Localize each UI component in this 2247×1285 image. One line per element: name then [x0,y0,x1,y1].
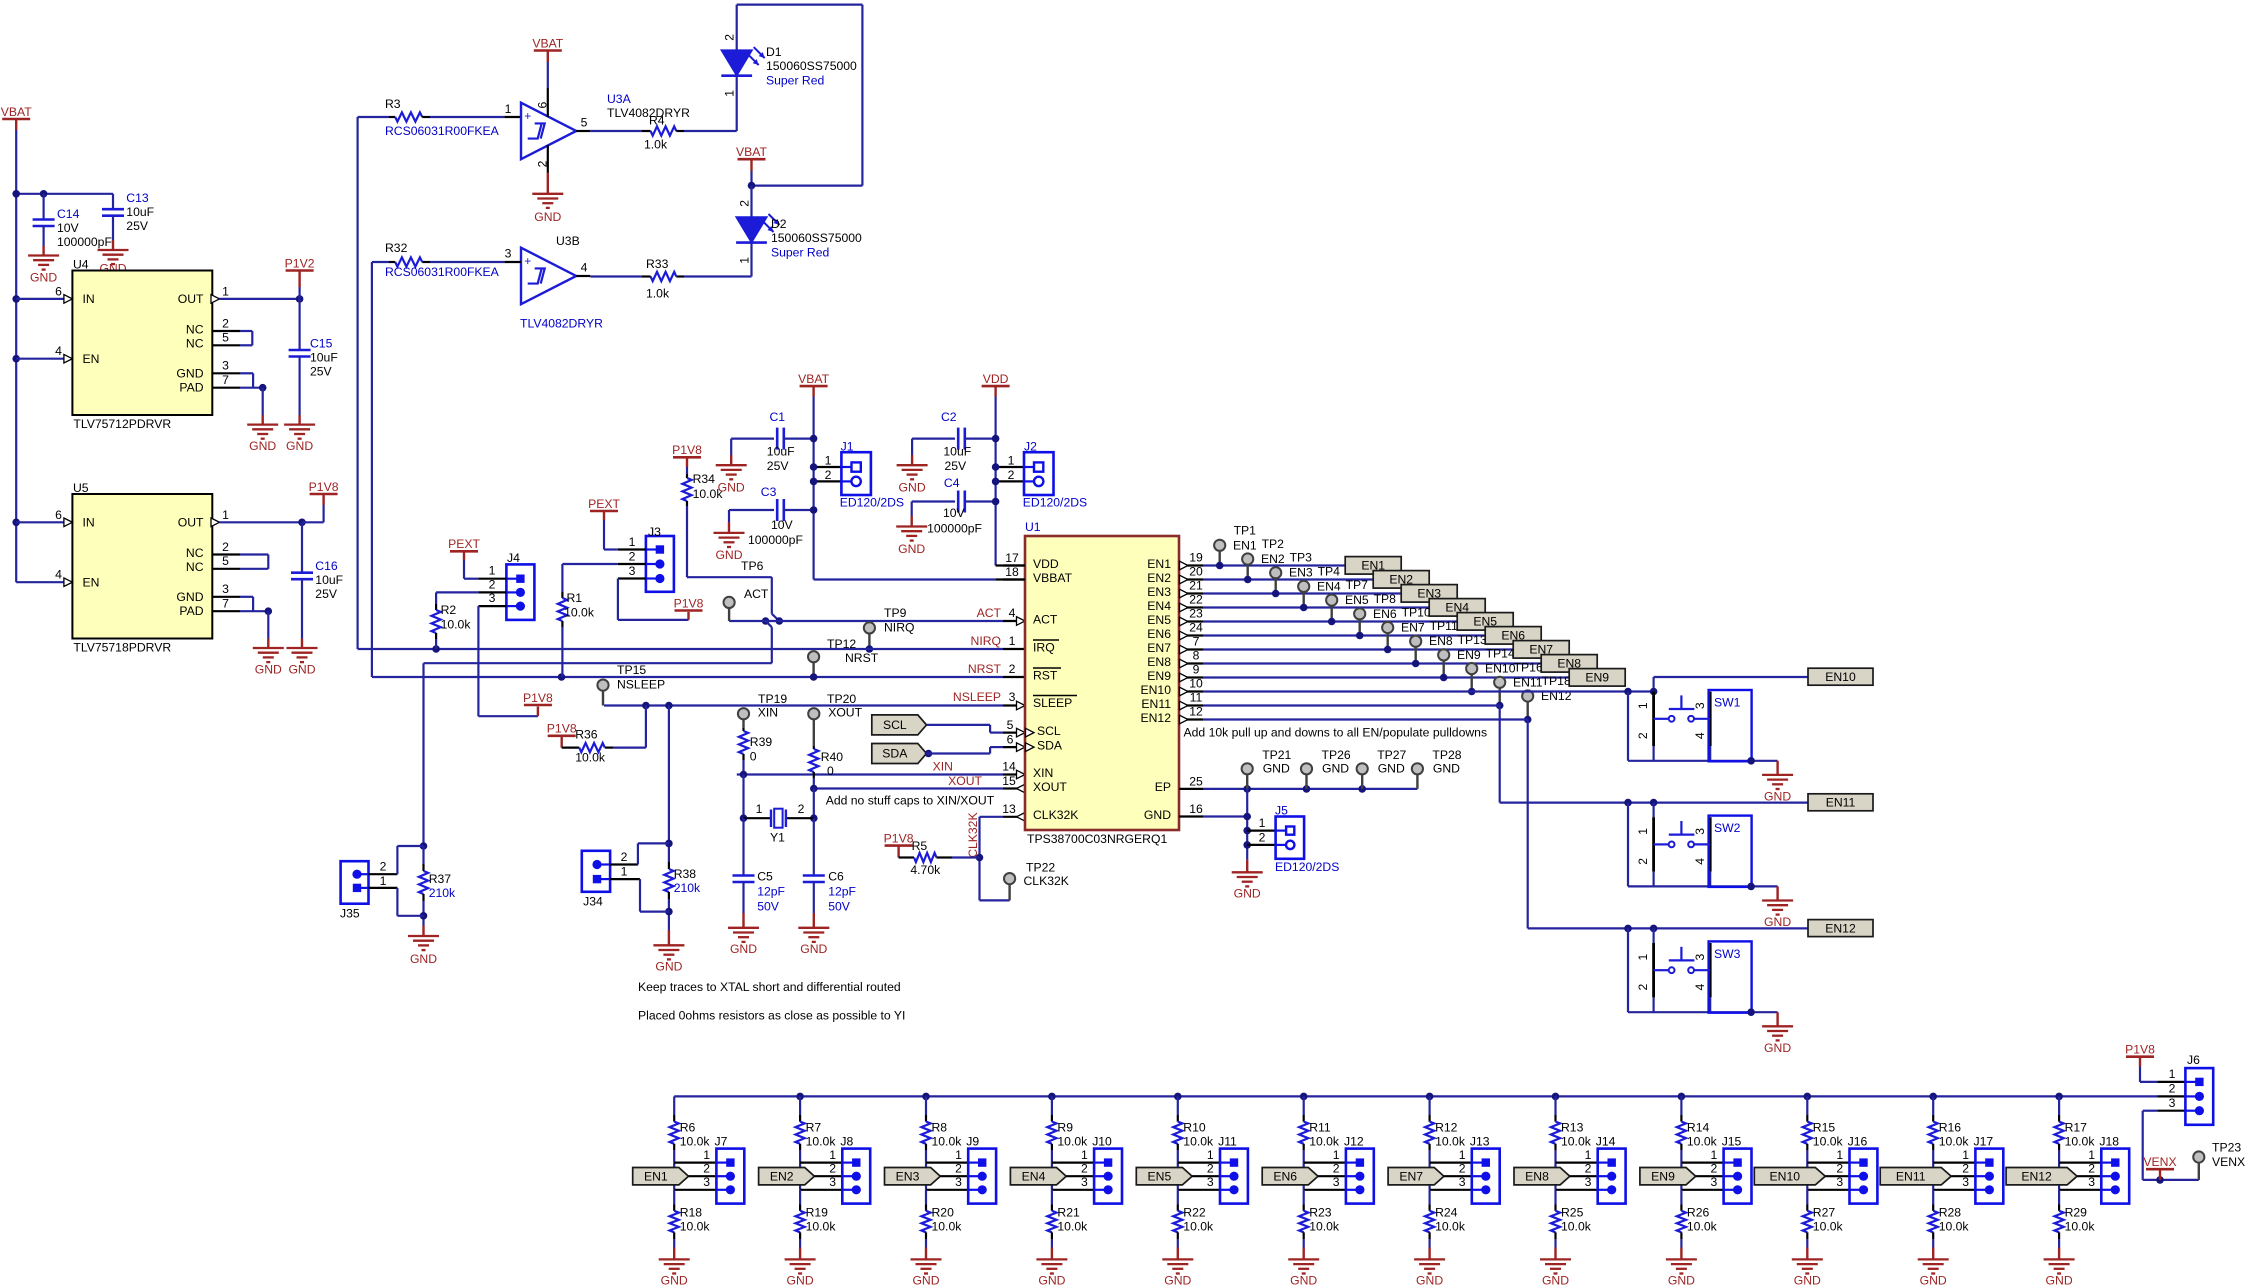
svg-text:1: 1 [222,508,229,522]
svg-text:GND: GND [1038,1273,1065,1285]
svg-text:XOUT: XOUT [1033,780,1067,794]
svg-text:TP23: TP23 [2212,1141,2241,1155]
svg-text:18: 18 [1005,565,1019,579]
svg-text:J11: J11 [1218,1134,1237,1148]
svg-text:TP4: TP4 [1318,564,1341,578]
svg-text:3: 3 [1693,828,1707,835]
svg-text:100000pF: 100000pF [927,521,982,535]
svg-text:XIN: XIN [1033,766,1053,780]
svg-text:R11: R11 [1309,1120,1331,1134]
svg-text:10.0k: 10.0k [1057,1219,1088,1233]
svg-text:12pF: 12pF [828,884,856,898]
svg-text:5: 5 [222,331,229,345]
svg-text:R20: R20 [932,1205,955,1219]
svg-text:GND: GND [249,439,276,453]
svg-text:3: 3 [1333,1175,1340,1189]
svg-text:EN1: EN1 [1233,538,1257,552]
svg-text:J2: J2 [1024,440,1037,454]
svg-text:TP15: TP15 [617,663,646,677]
svg-text:R27: R27 [1813,1205,1836,1219]
svg-text:EN12: EN12 [1141,711,1172,725]
svg-text:3: 3 [829,1175,836,1189]
svg-text:R6: R6 [680,1120,696,1134]
svg-text:R34: R34 [693,472,716,486]
svg-text:TP28: TP28 [1432,748,1461,762]
svg-text:C13: C13 [126,191,149,205]
svg-text:3: 3 [1962,1175,1969,1189]
svg-text:1: 1 [756,802,763,816]
svg-text:EN11: EN11 [1826,796,1856,810]
svg-text:IN: IN [83,292,95,306]
svg-text:150060SS75000: 150060SS75000 [766,59,857,73]
svg-text:GND: GND [912,1273,939,1285]
svg-text:6: 6 [55,508,62,522]
svg-text:8: 8 [1193,648,1200,662]
svg-text:ED120/2DS: ED120/2DS [1275,860,1339,874]
svg-text:R17: R17 [2065,1120,2088,1134]
svg-text:EN9: EN9 [1585,671,1609,685]
svg-text:1.0k: 1.0k [644,137,668,151]
svg-text:TP18: TP18 [1542,674,1571,688]
svg-text:U4: U4 [73,257,89,271]
svg-text:R14: R14 [1687,1120,1710,1134]
svg-text:10.0k: 10.0k [1939,1134,1970,1148]
svg-text:EN: EN [83,575,100,589]
svg-text:R15: R15 [1813,1120,1836,1134]
svg-text:6: 6 [55,284,62,298]
svg-text:J1: J1 [841,440,854,454]
svg-text:TP8: TP8 [1374,592,1397,606]
svg-text:RST: RST [1033,668,1058,682]
svg-text:PEXT: PEXT [588,497,620,511]
svg-text:RCS06031R00FKEA: RCS06031R00FKEA [385,265,500,279]
svg-text:7: 7 [222,597,229,611]
svg-text:ED120/2DS: ED120/2DS [1023,496,1087,510]
svg-text:10.0k: 10.0k [564,605,595,619]
svg-text:10: 10 [1189,676,1203,690]
svg-text:1: 1 [380,874,387,888]
svg-text:R36: R36 [575,727,598,741]
svg-text:U3A: U3A [607,92,632,106]
svg-text:NIRQ: NIRQ [971,634,1001,648]
svg-text:10.0k: 10.0k [1183,1219,1214,1233]
svg-text:IN: IN [83,515,95,529]
svg-text:EN2: EN2 [1261,552,1285,566]
svg-text:10.0k: 10.0k [806,1219,837,1233]
svg-text:J3: J3 [648,525,661,539]
svg-text:4: 4 [1009,606,1016,620]
svg-text:EP: EP [1155,780,1171,794]
svg-text:1: 1 [1711,1148,1718,1162]
svg-text:EN10: EN10 [1141,683,1172,697]
svg-text:SDA: SDA [882,747,908,761]
svg-text:10.0k: 10.0k [1813,1134,1844,1148]
svg-text:1: 1 [1009,634,1016,648]
svg-text:J8: J8 [840,1134,853,1148]
svg-text:1: 1 [1636,954,1650,961]
svg-text:2: 2 [2169,1081,2176,1095]
svg-text:J9: J9 [966,1134,979,1148]
svg-text:5: 5 [1007,718,1014,732]
svg-text:10.0k: 10.0k [575,750,606,764]
svg-text:2: 2 [1636,732,1650,739]
svg-text:3: 3 [1585,1175,1592,1189]
svg-text:GND: GND [1668,1273,1695,1285]
svg-text:VBAT: VBAT [1,105,32,119]
svg-text:2: 2 [380,859,387,873]
svg-text:EN7: EN7 [1401,621,1425,635]
svg-text:R29: R29 [2065,1205,2088,1219]
svg-text:R25: R25 [1561,1205,1584,1219]
svg-text:TP13: TP13 [1458,633,1487,647]
svg-text:4: 4 [55,344,62,358]
svg-text:EN9: EN9 [1147,669,1171,683]
svg-text:10.0k: 10.0k [932,1219,963,1233]
svg-text:TP20: TP20 [827,692,856,706]
svg-text:5: 5 [581,115,588,129]
svg-text:U3B: U3B [556,234,580,248]
svg-text:OUT: OUT [178,515,204,529]
svg-text:EN9: EN9 [1457,648,1481,662]
svg-text:2: 2 [1585,1161,1592,1175]
svg-text:R5: R5 [912,839,928,853]
svg-text:2: 2 [1962,1161,1969,1175]
svg-text:2: 2 [737,200,751,207]
svg-text:10.0k: 10.0k [1687,1134,1718,1148]
svg-text:4: 4 [1693,858,1707,865]
svg-text:IRQ: IRQ [1033,640,1055,654]
svg-text:GND: GND [800,942,827,956]
svg-text:25V: 25V [315,587,338,601]
svg-text:C4: C4 [944,476,960,490]
svg-text:Placed 0ohms resistors as clos: Placed 0ohms resistors as close as possi… [638,1008,905,1022]
svg-text:P1V8: P1V8 [2125,1043,2155,1057]
svg-text:10uF: 10uF [943,444,971,458]
svg-text:13: 13 [1002,802,1016,816]
svg-text:10.0k: 10.0k [1561,1219,1592,1233]
svg-text:GND: GND [534,210,561,224]
svg-text:25V: 25V [310,365,333,379]
svg-text:50V: 50V [828,899,851,913]
svg-text:EN5: EN5 [1147,613,1171,627]
svg-text:2: 2 [955,1161,962,1175]
svg-text:ACT: ACT [744,587,769,601]
svg-text:P1V2: P1V2 [285,256,315,270]
svg-text:21: 21 [1189,578,1203,592]
svg-text:C14: C14 [57,207,80,221]
svg-text:J35: J35 [340,906,360,920]
svg-text:SW2: SW2 [1714,821,1741,835]
svg-text:R9: R9 [1057,1120,1073,1134]
svg-text:0: 0 [827,764,834,778]
svg-text:VENX: VENX [2212,1155,2245,1169]
svg-text:TP9: TP9 [884,606,907,620]
svg-text:TP10: TP10 [1402,606,1431,620]
svg-text:5: 5 [222,554,229,568]
svg-text:EN6: EN6 [1147,627,1171,641]
svg-text:J10: J10 [1092,1134,1112,1148]
svg-text:GND: GND [1542,1273,1569,1285]
svg-text:R3: R3 [385,97,401,111]
svg-text:R23: R23 [1309,1205,1332,1219]
svg-text:R21: R21 [1057,1205,1080,1219]
svg-text:P1V8: P1V8 [674,596,704,610]
svg-text:GND: GND [288,662,315,676]
svg-text:ED120/2DS: ED120/2DS [840,496,904,510]
svg-text:1: 1 [489,563,496,577]
svg-text:3: 3 [1081,1175,1088,1189]
svg-text:GND: GND [2046,1273,2073,1285]
svg-text:4: 4 [1693,984,1707,991]
svg-text:1: 1 [1459,1148,1466,1162]
svg-text:EN8: EN8 [1525,1169,1549,1183]
svg-text:P1V8: P1V8 [523,691,553,705]
svg-text:C5: C5 [757,869,773,883]
svg-text:R24: R24 [1435,1205,1458,1219]
svg-text:C16: C16 [315,559,338,573]
svg-text:EN9: EN9 [1651,1169,1675,1183]
svg-text:TP1: TP1 [1234,523,1257,537]
svg-text:J18: J18 [2099,1134,2119,1148]
svg-text:3: 3 [955,1175,962,1189]
svg-text:TP12: TP12 [827,637,856,651]
svg-text:10.0k: 10.0k [806,1134,837,1148]
svg-text:EN10: EN10 [1825,670,1856,684]
svg-text:2: 2 [1009,662,1016,676]
svg-text:NSLEEP: NSLEEP [617,677,665,691]
svg-text:2: 2 [1207,1161,1214,1175]
svg-text:GND: GND [30,270,57,284]
svg-text:210k: 210k [429,886,456,900]
svg-text:1: 1 [1585,1148,1592,1162]
svg-text:SCL: SCL [883,718,907,732]
svg-text:3: 3 [1693,954,1707,961]
svg-text:TP11: TP11 [1430,619,1458,633]
svg-text:EN3: EN3 [1289,566,1313,580]
svg-text:2: 2 [1836,1161,1843,1175]
svg-text:3: 3 [2088,1175,2095,1189]
svg-text:TP16: TP16 [1514,660,1543,674]
svg-text:10.0k: 10.0k [1939,1219,1970,1233]
svg-text:12: 12 [1189,704,1203,718]
svg-text:P1V8: P1V8 [309,480,339,494]
svg-text:EN2: EN2 [1147,571,1171,585]
svg-text:2: 2 [2088,1161,2095,1175]
svg-text:3: 3 [1207,1175,1214,1189]
svg-text:GND: GND [661,1273,688,1285]
svg-text:25V: 25V [767,459,790,473]
svg-text:TP19: TP19 [758,692,787,706]
svg-text:1: 1 [1259,816,1266,830]
svg-text:EN2: EN2 [770,1169,794,1183]
svg-text:10V: 10V [943,506,966,520]
svg-text:2: 2 [1333,1161,1340,1175]
svg-text:1: 1 [1081,1148,1088,1162]
svg-text:EN7: EN7 [1147,641,1171,655]
svg-text:3: 3 [1711,1175,1718,1189]
svg-text:TP14: TP14 [1486,647,1515,661]
svg-text:10.0k: 10.0k [1435,1219,1466,1233]
svg-text:R37: R37 [429,872,452,886]
svg-text:SCL: SCL [1037,724,1061,738]
svg-text:R16: R16 [1939,1120,1962,1134]
svg-text:R2: R2 [441,603,457,617]
svg-text:R22: R22 [1183,1205,1206,1219]
svg-text:1: 1 [2169,1067,2176,1081]
svg-text:EN11: EN11 [1141,697,1171,711]
svg-text:GND: GND [1794,1273,1821,1285]
svg-text:22: 22 [1189,592,1203,606]
svg-text:2: 2 [1459,1161,1466,1175]
svg-text:2: 2 [798,802,805,816]
svg-text:2: 2 [703,1161,710,1175]
svg-text:10.0k: 10.0k [1687,1219,1718,1233]
svg-text:GND: GND [176,366,203,380]
svg-text:24: 24 [1189,620,1203,634]
svg-text:VBAT: VBAT [798,372,829,386]
svg-text:+: + [524,254,531,268]
svg-text:GND: GND [1920,1273,1947,1285]
svg-text:25V: 25V [945,459,968,473]
svg-text:GND: GND [898,542,925,556]
svg-text:SW1: SW1 [1714,695,1741,709]
svg-text:Super Red: Super Red [766,73,824,87]
svg-text:50V: 50V [757,899,780,913]
svg-text:6: 6 [536,102,550,109]
svg-text:10.0k: 10.0k [1183,1134,1214,1148]
svg-text:U1: U1 [1025,520,1041,534]
svg-text:PAD: PAD [179,604,203,618]
svg-text:2: 2 [825,468,832,482]
svg-text:1: 1 [1207,1148,1214,1162]
svg-text:1: 1 [621,864,628,878]
svg-text:TP27: TP27 [1377,748,1406,762]
svg-text:J12: J12 [1344,1134,1364,1148]
svg-text:XIN: XIN [758,705,778,719]
svg-text:GND: GND [1378,762,1405,776]
svg-text:TLV75718PDRVR: TLV75718PDRVR [73,640,171,654]
svg-text:CLK32K: CLK32K [966,812,980,857]
svg-text:GND: GND [1764,1041,1791,1055]
svg-text:R10: R10 [1183,1120,1206,1134]
svg-text:Super Red: Super Red [771,245,829,259]
svg-text:CLK32K: CLK32K [1033,808,1078,822]
svg-text:R32: R32 [385,241,408,255]
svg-text:GND: GND [1290,1273,1317,1285]
svg-text:1: 1 [1636,702,1650,709]
svg-text:1: 1 [737,257,751,264]
svg-text:C6: C6 [828,869,844,883]
svg-text:3: 3 [1009,690,1016,704]
svg-text:GND: GND [730,942,757,956]
svg-text:NC: NC [186,337,204,351]
svg-text:20: 20 [1189,564,1203,578]
svg-text:J17: J17 [1974,1134,1994,1148]
svg-text:P1V8: P1V8 [884,831,914,845]
svg-text:10.0k: 10.0k [680,1219,711,1233]
svg-text:R26: R26 [1687,1205,1710,1219]
svg-text:EN12: EN12 [2021,1169,2052,1183]
svg-text:SLEEP: SLEEP [1033,696,1072,710]
svg-text:9: 9 [1193,662,1200,676]
svg-text:23: 23 [1189,606,1203,620]
svg-text:2: 2 [1636,858,1650,865]
svg-text:1: 1 [222,284,229,298]
svg-text:100000pF: 100000pF [57,235,112,249]
svg-text:GND: GND [410,952,437,966]
svg-text:EN8: EN8 [1147,655,1171,669]
svg-text:P1V8: P1V8 [547,722,577,736]
svg-text:NC: NC [186,322,204,336]
svg-text:GND: GND [1234,887,1261,901]
svg-text:1: 1 [1008,454,1015,468]
svg-text:EN: EN [83,352,100,366]
svg-text:2: 2 [222,540,229,554]
svg-text:R19: R19 [806,1205,829,1219]
svg-text:GND: GND [176,590,203,604]
svg-text:GND: GND [286,439,313,453]
svg-text:10.0k: 10.0k [2065,1219,2096,1233]
svg-text:GND: GND [255,662,282,676]
svg-text:GND: GND [1433,762,1460,776]
svg-text:3: 3 [1459,1175,1466,1189]
svg-text:J16: J16 [1848,1134,1868,1148]
svg-text:XOUT: XOUT [948,774,982,788]
svg-text:R33: R33 [646,257,669,271]
svg-text:J15: J15 [1722,1134,1742,1148]
svg-text:10uF: 10uF [315,573,343,587]
svg-text:1: 1 [955,1148,962,1162]
svg-text:10.0k: 10.0k [1057,1134,1088,1148]
svg-text:VBBAT: VBBAT [1033,571,1073,585]
svg-text:R28: R28 [1939,1205,1962,1219]
svg-text:GND: GND [1263,762,1290,776]
svg-text:10V: 10V [57,221,80,235]
svg-text:XIN: XIN [933,759,953,773]
svg-text:GND: GND [1322,762,1349,776]
svg-text:TP21: TP21 [1262,748,1291,762]
svg-text:ACT: ACT [977,606,1002,620]
svg-text:150060SS75000: 150060SS75000 [771,231,862,245]
svg-text:GND: GND [1416,1273,1443,1285]
svg-text:1: 1 [703,1148,710,1162]
svg-text:D1: D1 [766,45,782,59]
svg-text:16: 16 [1189,802,1203,816]
svg-text:EN4: EN4 [1317,579,1341,593]
svg-text:EN10: EN10 [1770,1169,1801,1183]
svg-text:10uF: 10uF [767,444,795,458]
svg-text:10V: 10V [771,518,794,532]
svg-text:10.0k: 10.0k [1561,1134,1592,1148]
svg-text:10.0k: 10.0k [1813,1219,1844,1233]
svg-text:C15: C15 [310,337,333,351]
svg-text:EN11: EN11 [1896,1169,1926,1183]
svg-text:11: 11 [1190,690,1203,704]
svg-text:1: 1 [629,535,636,549]
svg-text:Y1: Y1 [770,830,785,844]
svg-text:R7: R7 [806,1120,822,1134]
svg-text:Add 10k pull up and downs to a: Add 10k pull up and downs to all EN/popu… [1184,726,1488,740]
svg-text:R38: R38 [674,867,697,881]
svg-text:2: 2 [1259,830,1266,844]
svg-text:2: 2 [1008,468,1015,482]
svg-text:XOUT: XOUT [828,705,862,719]
svg-text:1: 1 [1836,1148,1843,1162]
svg-text:NSLEEP: NSLEEP [953,690,1001,704]
svg-text:J4: J4 [507,551,520,565]
svg-text:C2: C2 [941,410,957,424]
svg-text:2: 2 [629,549,636,563]
